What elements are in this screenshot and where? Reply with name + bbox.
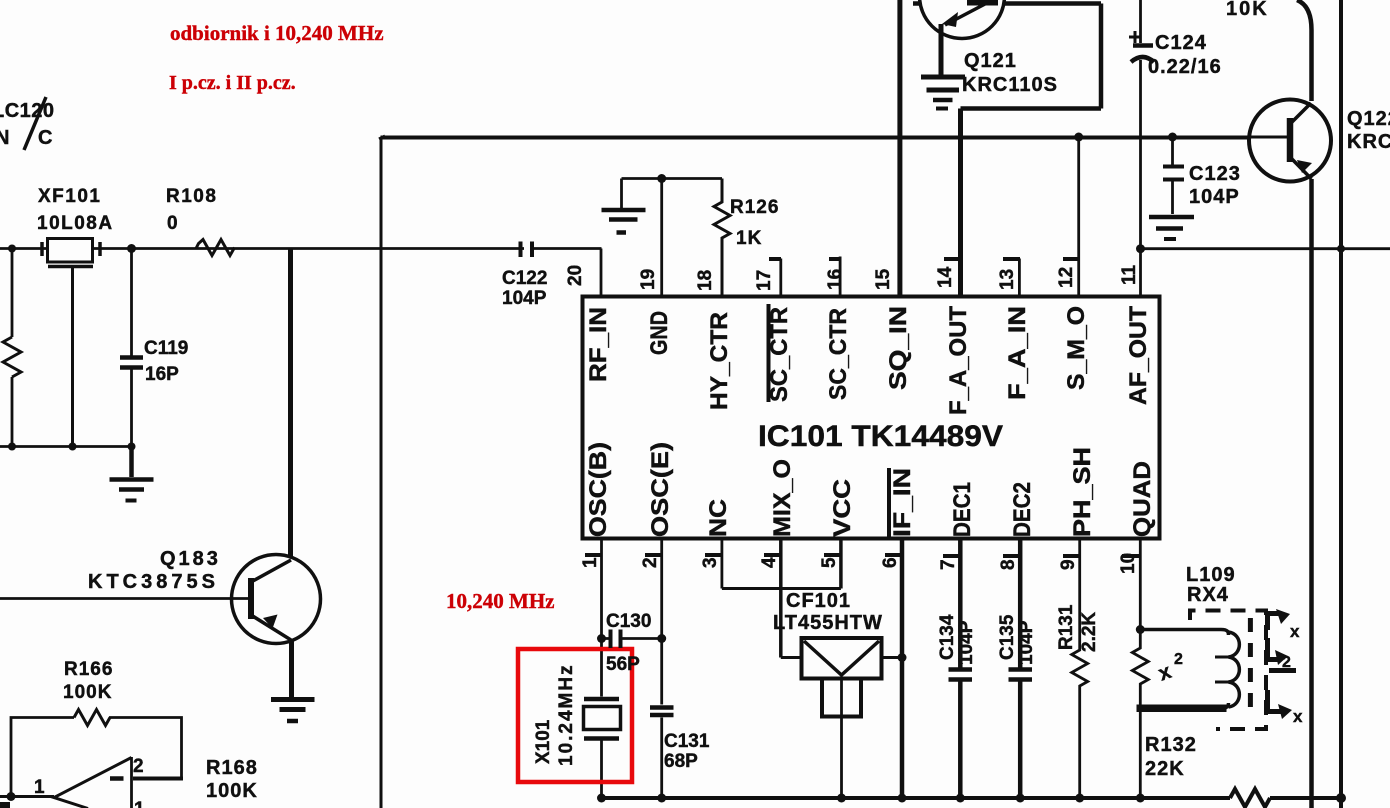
svg-text:MIX_O: MIX_O [769, 459, 796, 537]
pin13 tick [1003, 257, 1020, 261]
wire op-amp pin2 [133, 777, 183, 781]
node rail pin10 [1136, 794, 1145, 803]
plus sign C124 [1129, 31, 1141, 43]
svg-text:0.22/16: 0.22/16 [1148, 56, 1222, 78]
svg-text:F_A_OUT: F_A_OUT [945, 306, 972, 415]
svg-text:VCC: VCC [829, 479, 856, 537]
svg-text:8: 8 [998, 559, 1019, 570]
inductor L109 [1140, 630, 1239, 710]
wire op-amp pin1 [0, 795, 54, 798]
svg-text:1: 1 [580, 557, 601, 568]
capacitor C131 plates [650, 708, 674, 716]
svg-text:104P: 104P [1189, 186, 1240, 208]
node XF101 stem [69, 443, 77, 451]
svg-text:R166: R166 [64, 659, 113, 680]
svg-text:2: 2 [133, 756, 144, 777]
svg-text:XF101: XF101 [38, 186, 101, 207]
svg-text:NC: NC [705, 499, 732, 537]
dashed core line [1248, 618, 1253, 710]
capacitor C123 [1163, 137, 1184, 214]
svg-text:N: N [0, 127, 9, 149]
ground under Q183 [271, 700, 315, 722]
svg-text:2: 2 [640, 557, 661, 568]
svg-text:R108: R108 [166, 186, 217, 207]
pin9 tick [1063, 554, 1080, 558]
svg-text:104P: 104P [956, 620, 977, 665]
wire riser x382 [379, 136, 385, 808]
svg-text:22K: 22K [1145, 758, 1185, 780]
svg-text:OSC(B): OSC(B) [585, 442, 612, 537]
wire pin15 vertical [897, 0, 902, 296]
transistor Q122 [1248, 0, 1331, 808]
node C130 left [597, 634, 606, 643]
svg-text:GND: GND [646, 311, 673, 355]
capacitor C135 plates [1009, 670, 1033, 680]
minus sign of op-amp [110, 776, 124, 781]
svg-text:0: 0 [167, 213, 178, 234]
resistor R166 [74, 710, 110, 726]
svg-text:9: 9 [1058, 559, 1079, 570]
wire CF101 input y657.5 [781, 656, 902, 659]
node rail pin1 [597, 794, 606, 803]
svg-text:18: 18 [695, 270, 716, 291]
resistor in rail [1230, 789, 1270, 807]
ceramic filter CF101 [802, 638, 882, 798]
wire bottom-left y446.5 [0, 445, 133, 448]
resistor (left edge, value offpage) [3, 337, 21, 377]
svg-text:C124: C124 [1155, 32, 1207, 54]
svg-text:SQ_IN: SQ_IN [885, 306, 912, 390]
transistor Q121 (cut off at top) [920, 0, 1005, 75]
svg-text:odbiornik i 10,240 MHz: odbiornik i 10,240 MHz [170, 21, 384, 45]
pin2 tick [645, 553, 662, 557]
svg-text:R132: R132 [1145, 734, 1197, 756]
svg-text:C130: C130 [606, 611, 651, 632]
pin10 tick [1122, 554, 1140, 558]
svg-text:68P: 68P [664, 751, 698, 772]
pin7 lead with capacitor C134 [958, 539, 963, 798]
svg-text:100K: 100K [206, 780, 258, 802]
pin17 stub [779, 259, 782, 297]
svg-text:HY_CTR: HY_CTR [706, 312, 733, 410]
svg-text:CF101: CF101 [786, 590, 851, 612]
pin17 tick [769, 257, 781, 261]
node C119 top [127, 244, 136, 253]
pin9 lead with resistor R131 [1072, 539, 1088, 798]
svg-text:R131: R131 [1056, 604, 1077, 650]
node rail pin7 [956, 794, 965, 803]
wire stub bottom-left corner [0, 802, 10, 808]
capacitor C134 plates [949, 670, 973, 680]
svg-text:R168: R168 [206, 757, 258, 779]
svg-text:12: 12 [1056, 267, 1077, 288]
wire left vertical x12 [11, 249, 14, 447]
pin6 lead [900, 539, 905, 798]
ground under C123 [1149, 217, 1194, 239]
pin6 tick [885, 553, 902, 557]
winding tap 2 [1268, 638, 1297, 671]
pin8 tick [1003, 554, 1021, 558]
svg-text:DEC1: DEC1 [949, 482, 976, 537]
svg-text:x: x [1293, 707, 1303, 726]
ground at pin19 [602, 179, 646, 233]
pin4 lead [779, 539, 783, 658]
red highlight box around X101 [518, 649, 632, 782]
svg-text:10: 10 [1118, 553, 1139, 574]
svg-text:I p.cz. i II p.cz.: I p.cz. i II p.cz. [169, 72, 296, 94]
svg-text:SC_CTR: SC_CTR [825, 308, 852, 400]
svg-text:Q183: Q183 [160, 548, 221, 570]
svg-text:C134: C134 [937, 614, 958, 660]
svg-text:IC101 TK14489V: IC101 TK14489V [758, 420, 1003, 453]
node op-amp input [7, 792, 16, 801]
pin12 lead [1077, 137, 1080, 296]
node C123 top [1168, 133, 1177, 142]
svg-text:56P: 56P [606, 654, 640, 675]
node rail pin2 [657, 794, 666, 803]
svg-text:F_A_IN: F_A_IN [1004, 306, 1031, 400]
svg-text:LT455HTW: LT455HTW [773, 612, 883, 634]
svg-text:14: 14 [935, 266, 956, 288]
capacitor C124 + pin11 lead [1131, 0, 1154, 296]
wire top rail y137 [381, 136, 1289, 140]
node C130 right [657, 634, 666, 643]
box around Q121 [913, 4, 1101, 109]
IC101 package body [583, 297, 1160, 539]
svg-text:X101: X101 [533, 719, 554, 764]
svg-text:DEC2: DEC2 [1009, 482, 1036, 537]
svg-text:16P: 16P [145, 364, 179, 385]
node C119 bottom [128, 443, 136, 451]
svg-text:1: 1 [34, 777, 45, 798]
pin2 lead with capacitor C131 [660, 539, 663, 798]
svg-text:IF_IN: IF_IN [889, 468, 916, 537]
pin10 lead with resistor R132 [1132, 539, 1148, 798]
svg-text:20: 20 [565, 265, 586, 286]
wire R166 feedback loop [11, 718, 182, 797]
svg-text:R126: R126 [730, 197, 779, 218]
ground rail y798 [602, 796, 1345, 800]
svg-text:15: 15 [873, 268, 894, 290]
svg-text:PH_SH: PH_SH [1069, 447, 1096, 537]
crystal X101 [584, 699, 621, 798]
svg-text:10L08A: 10L08A [37, 213, 114, 234]
ground under Q121 [921, 77, 965, 109]
wire main left y248.5 [0, 247, 602, 250]
svg-text:LC120: LC120 [0, 100, 55, 122]
svg-text:QUAD: QUAD [1129, 461, 1156, 537]
pin1 lead [600, 539, 603, 697]
svg-text:11: 11 [1119, 264, 1140, 285]
capacitor C130 [602, 637, 662, 640]
pin3 tick [705, 553, 722, 557]
filter XF101 [42, 239, 100, 447]
winding tap 1 [1268, 609, 1301, 641]
slash of N/C [24, 97, 46, 150]
svg-text:2.2K: 2.2K [1079, 612, 1100, 652]
resistor R108 [196, 240, 235, 256]
svg-text:104P: 104P [502, 288, 547, 309]
svg-text:L109: L109 [1186, 564, 1236, 586]
svg-text:KRC110: KRC110 [1347, 131, 1390, 153]
svg-text:C119: C119 [144, 338, 188, 359]
wire right y248.7 [1141, 247, 1390, 250]
node at x12 [8, 245, 16, 253]
node rail pin6 [898, 794, 907, 803]
pin12 tick [1063, 257, 1079, 261]
svg-text:10.24MHz: 10.24MHz [556, 663, 577, 766]
wire pin19 to ground and R126 [622, 177, 723, 180]
svg-text:Q122: Q122 [1347, 108, 1390, 130]
node rail CF101 [837, 794, 846, 803]
pin1 tick [585, 553, 602, 557]
svg-text:13: 13 [997, 269, 1018, 290]
node L109 top [1136, 625, 1145, 634]
wire vertical x1341 [1339, 0, 1343, 808]
svg-text:2: 2 [1174, 651, 1183, 668]
node rail pin8 [1016, 794, 1025, 803]
svg-text:C135: C135 [997, 614, 1018, 660]
capacitor C119 [130, 249, 133, 447]
pin5 lead [839, 539, 843, 589]
svg-text:1K: 1K [736, 228, 762, 249]
node pin12 top [1074, 133, 1083, 142]
node wire-right x1341 [1337, 245, 1345, 253]
wire pin20 lead [600, 249, 603, 297]
pin16 stub [839, 257, 842, 297]
svg-text:S_M_O: S_M_O [1063, 306, 1090, 390]
dashed shield box L109 [1190, 611, 1266, 730]
wire pin14 vertical [958, 109, 963, 297]
svg-text:1: 1 [134, 799, 145, 808]
pin8 lead with capacitor C135 [1018, 539, 1023, 798]
transistor Q183 [0, 249, 321, 698]
svg-text:6: 6 [880, 557, 901, 568]
svg-text:19: 19 [638, 269, 659, 290]
svg-text:10,240 MHz: 10,240 MHz [446, 589, 554, 613]
winding tap 3 [1268, 690, 1304, 726]
overline bar IF_IN label [887, 468, 891, 537]
pin7 tick [943, 554, 961, 558]
node rail x1341 [1336, 793, 1346, 803]
node rail pin9 [1075, 794, 1084, 803]
svg-text:C122: C122 [502, 268, 547, 289]
pin4 tick [764, 553, 781, 557]
svg-text:10K: 10K [1226, 0, 1269, 20]
svg-text:7: 7 [938, 559, 959, 570]
svg-text:x: x [1290, 622, 1300, 641]
node left resistor bottom [8, 443, 16, 451]
node CF101/pin6 [898, 653, 907, 662]
svg-text:4: 4 [759, 557, 780, 568]
svg-text:KTC3875S: KTC3875S [88, 571, 219, 593]
pin16 tick [829, 257, 841, 261]
svg-text:OSC(E): OSC(E) [647, 442, 674, 537]
svg-text:5: 5 [819, 557, 840, 568]
pin3 lead [721, 539, 724, 589]
svg-text:AF_OUT: AF_OUT [1125, 306, 1152, 405]
svg-text:RX4: RX4 [1187, 584, 1229, 606]
ground under C119 [110, 447, 154, 501]
svg-text:17: 17 [754, 270, 775, 291]
overline bar pin17 label [767, 304, 771, 402]
svg-text:KRC110S: KRC110S [962, 74, 1058, 96]
op-amp U? (triangle, cut off) [54, 758, 132, 808]
svg-text:C123: C123 [1189, 163, 1241, 185]
svg-text:Q121: Q121 [964, 50, 1017, 72]
svg-text:C131: C131 [664, 731, 710, 752]
svg-text:3: 3 [700, 557, 721, 568]
node pin19 junction [657, 174, 666, 183]
pin14 tick [944, 257, 959, 261]
svg-text:16: 16 [825, 269, 846, 290]
resistor R126 [714, 179, 730, 297]
svg-text:104P: 104P [1016, 620, 1037, 665]
pin13 stub [1018, 259, 1021, 297]
L109 bottom bar [1137, 705, 1227, 713]
svg-text:100K: 100K [63, 682, 112, 703]
wire pin3 to pin5 y588.5 [722, 587, 841, 590]
svg-text:RF_IN: RF_IN [585, 307, 612, 382]
svg-text:C: C [38, 127, 52, 149]
pin5 tick [824, 553, 841, 557]
wire pin19 GND lead [660, 177, 663, 296]
capacitor C122 [521, 242, 533, 258]
node C124/pin11 to right wire [1136, 244, 1145, 253]
